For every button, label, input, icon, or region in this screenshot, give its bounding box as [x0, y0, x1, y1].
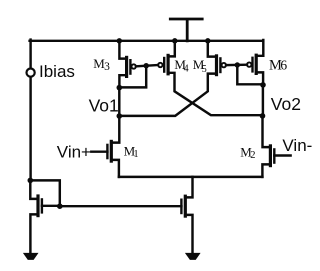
- node Ibias terminal circle: [27, 69, 35, 77]
- wire: Mtail source down to ground: [185, 215, 192, 254]
- M3 channel: [125, 57, 128, 76]
- node: rail junction at M5 source: [205, 38, 210, 43]
- wire: M3 source from rail: [119, 40, 126, 59]
- transistor Mtail (NMOS current sink, gate left): [181, 177, 192, 254]
- transistor M3 (diode-connected PMOS, gate right): [119, 40, 135, 88]
- node: rail junction at M3 source: [117, 38, 122, 43]
- wire: Mmirror diode connection loop: [30, 180, 60, 206]
- svg-text:1: 1: [133, 149, 138, 160]
- node Vo1 upper junction: [117, 85, 123, 91]
- M1 gate plate: [106, 145, 108, 158]
- svg-text:5: 5: [202, 64, 207, 75]
- transistor M4 (cross-coupled PMOS, gate left): [158, 40, 175, 74]
- node: M3 gate-drain junction: [144, 63, 149, 68]
- M6 gate bubble: [247, 62, 251, 66]
- Mtail channel: [184, 196, 187, 216]
- wire: M6 diode connection down to Vo2: [237, 65, 263, 84]
- wire: M3 drain down to Vo1: [119, 75, 126, 88]
- wire: M6 drain down to Vo2: [256, 72, 263, 85]
- M2 gate plate: [273, 149, 275, 162]
- Mmirror channel: [36, 196, 39, 216]
- node: bias mirror drain junction: [28, 178, 34, 184]
- M5 gate plate: [219, 58, 221, 72]
- wire: M2 gate lead to Vin-: [274, 154, 290, 156]
- wire: shared gate of M5/M6: [226, 63, 247, 66]
- transistor M5 (cross-coupled PMOS, gate right): [208, 40, 226, 75]
- node Vo2 upper junction: [260, 82, 266, 88]
- M4 gate plate: [163, 58, 165, 72]
- wire: tail line joining M1/M2 sources: [119, 176, 263, 178]
- node Vo2 lower junction: [260, 113, 266, 119]
- transistor M6 (diode-connected PMOS, gate left): [247, 40, 263, 85]
- wire: Mtail drain up to tail line: [185, 177, 192, 198]
- ground symbol left: [23, 253, 39, 260]
- wire: Mmirror gate lead: [42, 205, 60, 207]
- wire: top VDD rail: [30, 40, 264, 42]
- svg-text:Vo1: Vo1: [89, 96, 119, 116]
- svg-text:2: 2: [250, 150, 255, 161]
- wire: Mmirror source down to ground: [30, 214, 38, 253]
- M6 gate plate: [251, 58, 253, 72]
- node: rail junction at M4 source: [172, 38, 177, 43]
- M5 gate bubble: [222, 63, 226, 67]
- M3 gate plate: [129, 60, 131, 73]
- wire: Vo2 vertical down to M2 drain: [263, 85, 271, 147]
- M4 channel: [167, 55, 170, 73]
- M5 channel: [215, 56, 218, 75]
- wire: M5 drain cross-coupled to Vo1: [119, 74, 216, 116]
- M3 gate bubble: [132, 64, 136, 68]
- svg-text:Vin-: Vin-: [282, 136, 312, 155]
- wire: Mmirror drain up to bias node: [30, 180, 38, 199]
- wire: M2 source to tail: [262, 164, 270, 177]
- M2 channel: [269, 146, 272, 166]
- svg-text:Vo2: Vo2: [271, 94, 301, 114]
- transistor M2 (NMOS, gate right): [262, 146, 290, 177]
- svg-text:4: 4: [184, 63, 189, 74]
- wire: M1 gate lead from Vin+: [91, 150, 107, 152]
- svg-text:Ibias: Ibias: [39, 62, 75, 81]
- svg-text:Vin+: Vin+: [57, 143, 91, 162]
- wire: M3 diode connection down to Vo1: [119, 66, 146, 88]
- wire: Vo1 vertical down to M1 drain: [111, 87, 119, 143]
- ground symbol right: [185, 253, 201, 260]
- wire: shared gate of M3/M4: [136, 65, 158, 66]
- wire: M4 source from rail: [168, 40, 175, 57]
- wire: mirror gate line: [60, 205, 182, 207]
- Mmirror gate plate: [41, 199, 43, 212]
- svg-text:3: 3: [104, 61, 110, 73]
- node: M6 gate-drain junction: [235, 62, 240, 67]
- M6 channel: [255, 55, 258, 73]
- wire: M6 source from rail corner: [256, 40, 263, 56]
- svg-text:6: 6: [280, 57, 287, 72]
- wire: M1 source to tail: [111, 160, 119, 177]
- M4 gate bubble: [158, 63, 162, 67]
- wire: M4 drain cross-coupled to Vo2: [168, 73, 263, 115]
- wire: M5 source from rail: [208, 40, 217, 57]
- M1 channel: [110, 141, 113, 161]
- transistor Mmirror (diode-connected NMOS, gate right): [30, 180, 60, 254]
- node Vo1 lower junction: [117, 113, 123, 119]
- wire: left vertical bias wire: [29, 40, 31, 181]
- Mtail gate plate: [180, 200, 182, 213]
- transistor M1 (NMOS, gate left): [91, 141, 119, 177]
- node: mirror gate junction: [57, 203, 63, 209]
- VDD supply symbol: [170, 19, 202, 41]
